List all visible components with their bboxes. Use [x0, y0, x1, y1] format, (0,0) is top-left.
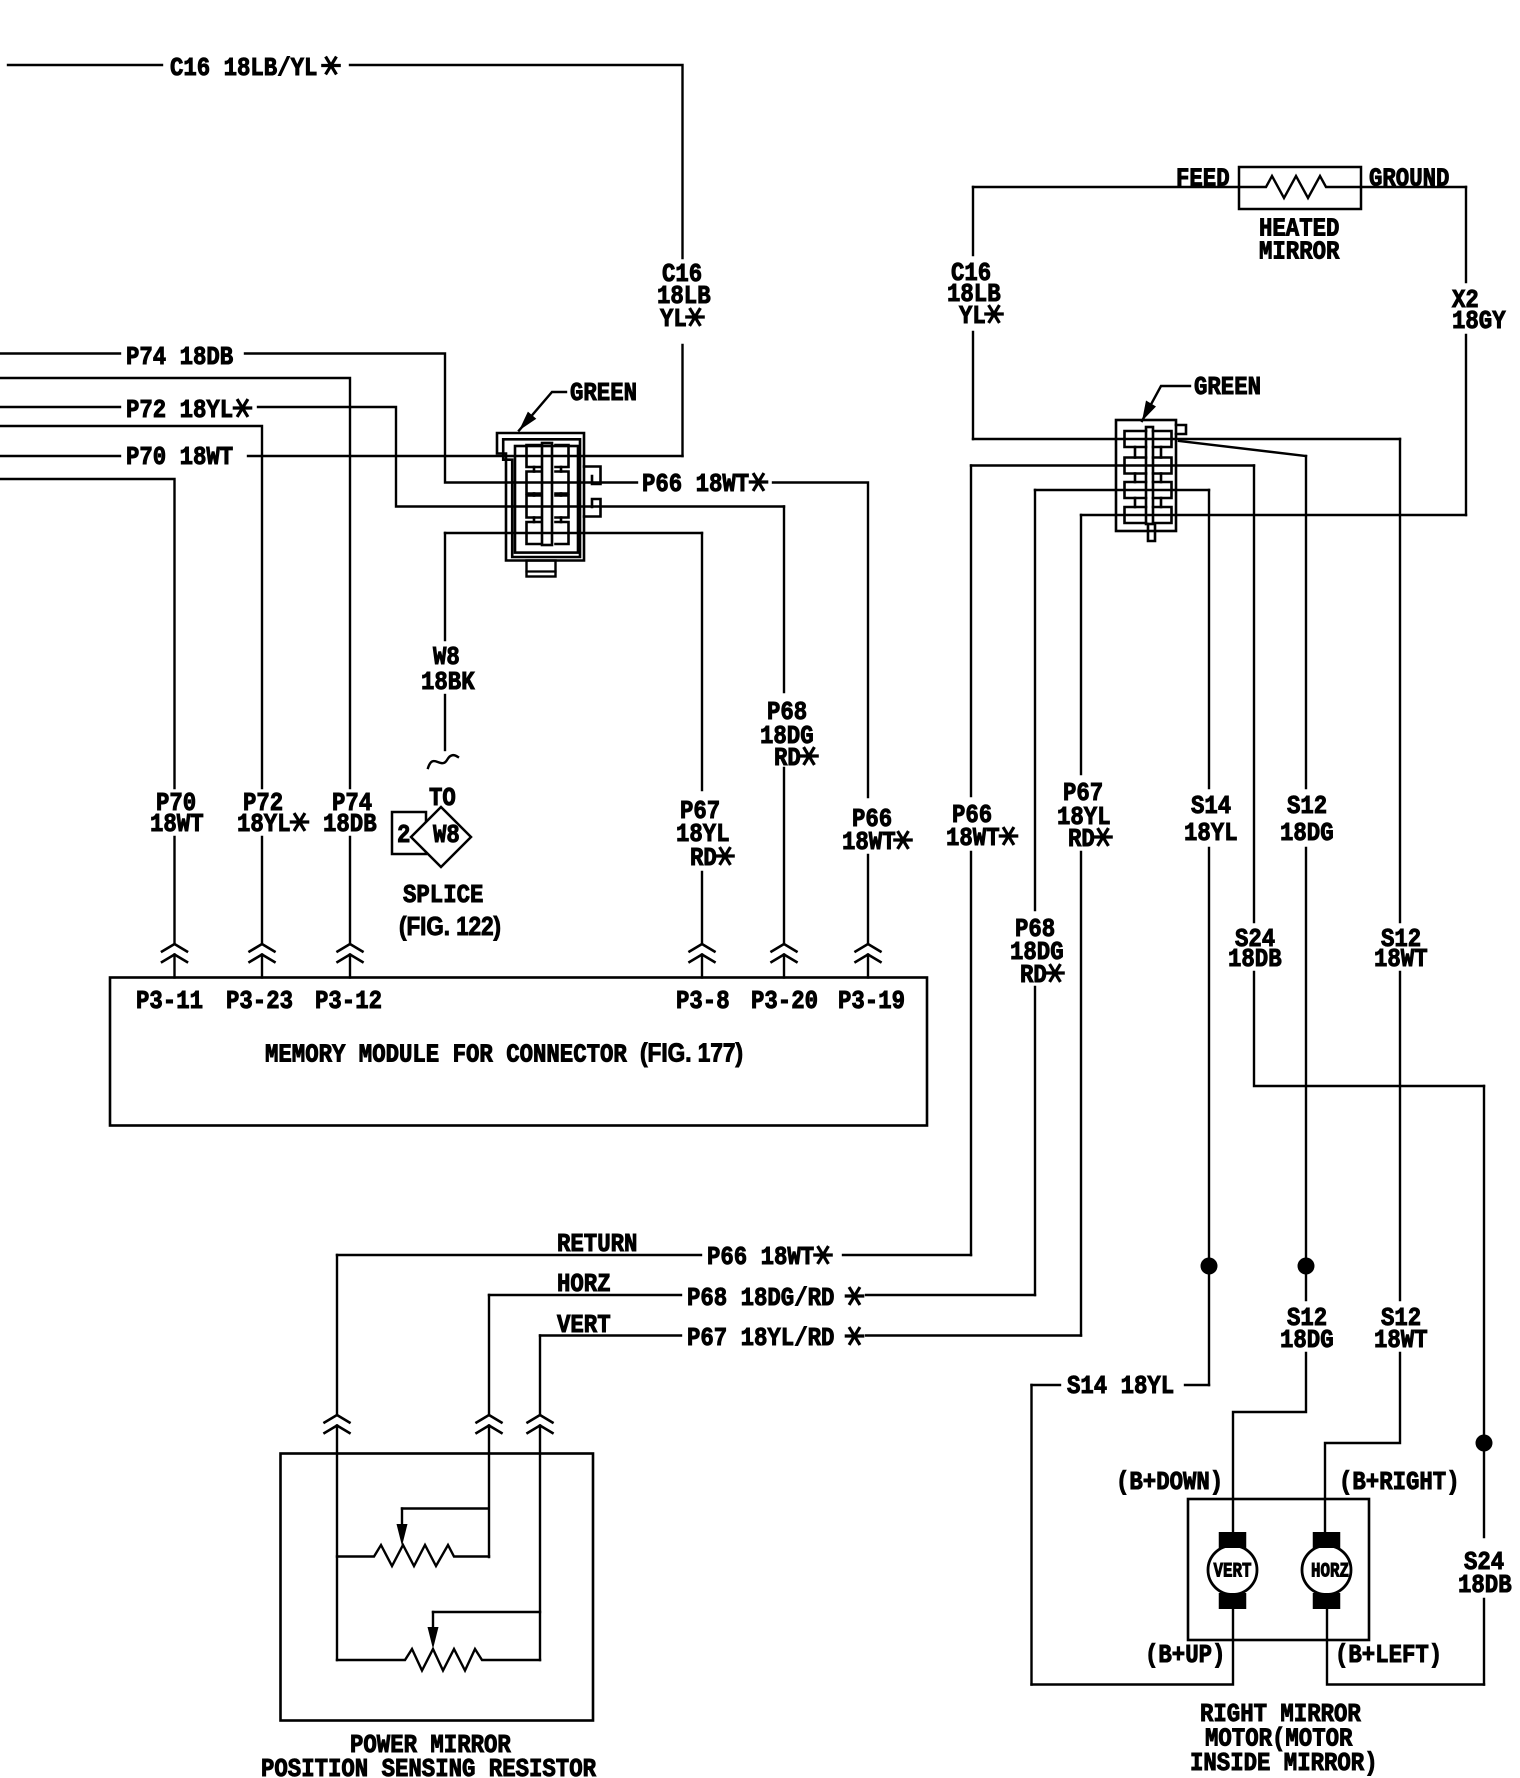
svg-text:VERT: VERT [1214, 1561, 1252, 1584]
svg-text:P3-20: P3-20 [751, 986, 818, 1016]
svg-text:18WT: 18WT [1374, 1325, 1428, 1355]
svg-text:SPLICE: SPLICE [403, 880, 483, 910]
svg-text:P66 18WT: P66 18WT [642, 469, 749, 499]
svg-text:18WT: 18WT [150, 809, 204, 839]
svg-text:W8: W8 [433, 820, 460, 850]
svg-text:GREEN: GREEN [570, 378, 637, 408]
svg-text:GROUND: GROUND [1369, 164, 1449, 194]
svg-text:INSIDE MIRROR): INSIDE MIRROR) [1190, 1748, 1378, 1778]
svg-text:FEED: FEED [1176, 164, 1230, 194]
svg-text:18YL: 18YL [237, 809, 291, 839]
svg-text:18GY: 18GY [1452, 306, 1506, 336]
svg-text:(B+UP): (B+UP) [1145, 1640, 1225, 1670]
svg-text:RD: RD [774, 743, 801, 773]
svg-text:P3-23: P3-23 [226, 986, 293, 1016]
svg-text:P3-19: P3-19 [838, 986, 905, 1016]
svg-text:YL: YL [959, 301, 986, 331]
svg-text:P68 18DG/RD: P68 18DG/RD [687, 1283, 834, 1313]
svg-text:RD: RD [1020, 960, 1047, 990]
svg-text:(B+LEFT): (B+LEFT) [1335, 1640, 1442, 1670]
svg-text:P70 18WT: P70 18WT [126, 442, 233, 472]
svg-text:P67 18YL/RD: P67 18YL/RD [687, 1323, 834, 1353]
svg-text:2: 2 [397, 820, 410, 850]
svg-text:18BK: 18BK [421, 667, 475, 697]
svg-text:C16 18LB/YL: C16 18LB/YL [170, 53, 317, 83]
svg-text:18DG: 18DG [1280, 818, 1334, 848]
svg-text:HORZ: HORZ [1311, 1561, 1349, 1584]
svg-text:18DB: 18DB [323, 809, 377, 839]
svg-text:(B+DOWN): (B+DOWN) [1116, 1467, 1223, 1497]
svg-text:S12: S12 [1287, 791, 1327, 821]
svg-text:MEMORY MODULE FOR CONNECTOR: MEMORY MODULE FOR CONNECTOR [265, 1040, 627, 1070]
svg-text:P3-12: P3-12 [315, 986, 382, 1016]
svg-text:P3-8: P3-8 [676, 986, 730, 1016]
svg-text:YL: YL [660, 304, 687, 334]
svg-text:P74 18DB: P74 18DB [126, 342, 234, 372]
svg-text:(FIG. 122): (FIG. 122) [399, 911, 501, 941]
svg-text:POSITION SENSING RESISTOR: POSITION SENSING RESISTOR [261, 1754, 596, 1778]
svg-text:P66 18WT: P66 18WT [707, 1242, 814, 1272]
svg-text:RD: RD [1068, 824, 1095, 854]
svg-text:(FIG. 177): (FIG. 177) [640, 1038, 743, 1068]
svg-text:S14: S14 [1191, 791, 1231, 821]
svg-text:18DB: 18DB [1228, 944, 1282, 974]
svg-text:18WT: 18WT [842, 827, 896, 857]
svg-text:MIRROR: MIRROR [1259, 237, 1340, 267]
svg-text:P72 18YL: P72 18YL [126, 395, 233, 425]
svg-text:S14 18YL: S14 18YL [1067, 1371, 1174, 1401]
svg-text:P3-11: P3-11 [136, 986, 203, 1016]
svg-text:18DB: 18DB [1458, 1570, 1512, 1600]
svg-text:(B+RIGHT): (B+RIGHT) [1339, 1467, 1460, 1497]
svg-text:18WT: 18WT [946, 823, 1000, 853]
svg-text:18WT: 18WT [1374, 944, 1428, 974]
svg-text:RD: RD [690, 843, 717, 873]
svg-text:18YL: 18YL [1184, 818, 1238, 848]
svg-text:18DG: 18DG [1280, 1325, 1334, 1355]
svg-text:GREEN: GREEN [1194, 372, 1261, 402]
